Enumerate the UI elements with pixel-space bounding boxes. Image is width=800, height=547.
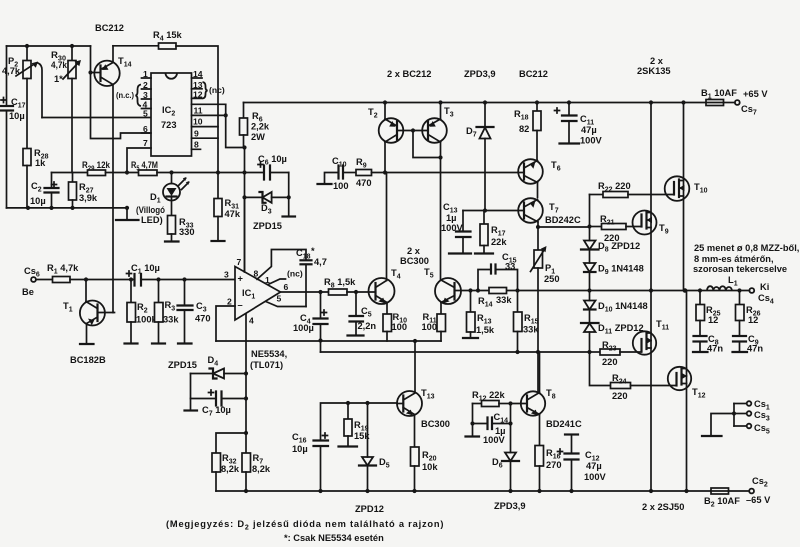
node rail C16 [318, 489, 322, 493]
node rail C12 [569, 489, 573, 493]
diode D3 ZPD15 [245, 192, 289, 231]
resistor R23 [590, 340, 642, 367]
wire R30 bottom [71, 79, 73, 173]
diode D9 1N4148 [584, 263, 644, 291]
svg-text:33k: 33k [523, 325, 539, 335]
resistor R10 [383, 303, 407, 342]
resistor R1 [47, 263, 79, 283]
node T8 base [508, 401, 512, 405]
svg-text:(n.c.): (n.c.) [116, 90, 134, 100]
terminal +65V Cs7 [735, 89, 768, 117]
svg-text:2 x: 2 x [650, 56, 664, 66]
transistor T2 [368, 103, 403, 173]
capacitor C16 [292, 432, 328, 491]
wire P2 wiper to IC2 pin5 [42, 117, 151, 119]
terminal Ki Cs4 [749, 282, 773, 306]
wire C6 right down to ground [288, 173, 290, 217]
inductor L1 [707, 275, 738, 291]
resistor R18 [514, 103, 541, 160]
svg-text:8,2k: 8,2k [252, 464, 271, 474]
svg-text:100V: 100V [483, 435, 506, 445]
node rail-P2 [25, 44, 29, 48]
op-amp-supply IC2 723 body [151, 73, 192, 156]
svg-text:47µ: 47µ [581, 125, 597, 135]
svg-text:BC300: BC300 [400, 256, 429, 266]
wire R29 to R5 [106, 172, 139, 174]
svg-text:7: 7 [237, 257, 242, 267]
IC2 right pin stubs [192, 69, 203, 150]
zener D8 ZPD12 [581, 241, 640, 264]
wire reference line y172 [52, 172, 88, 174]
mosfet T11 2SJ50 [633, 291, 669, 492]
terminal Cs5 [734, 423, 770, 436]
resistor R11 [422, 303, 446, 342]
node rail C11 [567, 100, 571, 104]
svg-text:+: + [238, 274, 244, 284]
resistor R24 [611, 373, 677, 401]
svg-text:4,7: 4,7 [314, 257, 327, 267]
zener D11 ZPD12 [581, 323, 644, 352]
diode D5 ZPD12 [359, 403, 390, 491]
ground left-bottom [126, 208, 128, 220]
svg-text:2,2k: 2,2k [251, 122, 270, 132]
svg-text:BC212: BC212 [519, 69, 548, 79]
svg-text:2,2n: 2,2n [358, 321, 377, 331]
mosfet T10 2SK135 [665, 103, 708, 291]
resistor R19 [339, 403, 371, 447]
svg-text:LED): LED) [141, 215, 163, 225]
svg-text:12: 12 [748, 315, 758, 325]
node D3 right [287, 195, 291, 199]
wire chain down to R24 [590, 352, 611, 386]
trimmer R30 [51, 46, 81, 84]
node base tie [411, 128, 415, 132]
resistor R21 [590, 214, 642, 243]
label nc right bracket [203, 82, 225, 99]
ground C7 [190, 399, 192, 411]
ground C14 [472, 424, 474, 437]
wire T7emitter to R21R22 [538, 226, 590, 228]
node C6 left [242, 170, 246, 174]
svg-text:6: 6 [284, 282, 289, 292]
resistor R27 [69, 173, 98, 208]
svg-text:3: 3 [143, 90, 148, 100]
resistor R3 [152, 280, 179, 344]
node R8-C5 [354, 290, 358, 294]
svg-text:(nc): (nc) [209, 85, 225, 95]
diode D10 1N4148 [584, 291, 648, 324]
svg-text:22k: 22k [491, 237, 507, 247]
node P1 line B [536, 350, 540, 354]
svg-text:BD241C: BD241C [546, 419, 582, 429]
node pin7-gnd [125, 170, 129, 174]
svg-text:ZPD3,9: ZPD3,9 [494, 501, 526, 511]
wire T8 base column to D6 [510, 404, 512, 453]
transistor T1 BC182B [63, 280, 115, 366]
node output T10T12 [683, 288, 688, 293]
wire IC2 pin10 [192, 126, 219, 128]
LED D1 [136, 173, 190, 226]
resistor R4 [153, 30, 183, 49]
wire left bottom common [7, 207, 128, 209]
svg-text:10k: 10k [422, 462, 438, 472]
node T1 collector [84, 277, 88, 281]
node rail R7 [244, 489, 248, 493]
terminal Cs3 [734, 410, 770, 423]
svg-text:4,7k: 4,7k [2, 66, 21, 76]
label coil note [693, 243, 799, 274]
resistor R2 [125, 280, 158, 344]
capacitor C17 [1, 46, 26, 208]
node rail R16 [537, 489, 541, 493]
resistor R17 [475, 211, 507, 254]
node C3 top [182, 277, 186, 281]
svg-text:270: 270 [546, 460, 562, 470]
svg-text:ZPD15: ZPD15 [253, 221, 282, 231]
node C7 right [244, 396, 248, 400]
resistor R31 [212, 173, 241, 242]
wire +65V rail [244, 102, 707, 104]
potentiometer P2 [2, 46, 42, 118]
svg-text:220: 220 [612, 391, 628, 401]
ground C6-D3 [283, 215, 296, 217]
transistor T13 [397, 388, 450, 447]
node rail T3 [438, 100, 442, 104]
node D5 top [365, 401, 369, 405]
wire T14 emitter rail to R4 [113, 45, 159, 47]
svg-text:BD242C: BD242C [545, 215, 581, 225]
transistor T5 [424, 267, 471, 304]
node C2R27 bottom [26, 206, 30, 210]
svg-text:14: 14 [193, 69, 203, 79]
svg-text:220: 220 [602, 357, 618, 367]
svg-text:100: 100 [333, 181, 349, 191]
svg-text:10µ: 10µ [30, 196, 46, 206]
wire IC1 pin4 down [245, 314, 247, 433]
svg-text:470: 470 [195, 314, 211, 324]
node T14 base [88, 70, 92, 74]
svg-text:47n: 47n [747, 344, 763, 354]
svg-text:330: 330 [179, 227, 195, 237]
node R2 top [129, 277, 133, 281]
svg-text:5: 5 [143, 109, 148, 119]
wire feedback line A [216, 340, 441, 342]
node D4 right [244, 371, 248, 375]
resistor R5 [131, 160, 158, 176]
resistor R22 [590, 181, 675, 198]
wire IC1 pin7 supply [244, 197, 246, 272]
IC2 left pin stubs [142, 69, 152, 148]
transistor T4 [369, 173, 401, 305]
node output C4 [318, 290, 322, 294]
capacitor C1 [127, 263, 160, 286]
wire T13 collector up [414, 341, 416, 393]
svg-text:10µ: 10µ [292, 444, 308, 454]
wire R32 branch [216, 433, 246, 453]
wire R22 down to R21 [589, 195, 591, 241]
node rail T12 [684, 489, 688, 493]
svg-text:3: 3 [224, 270, 229, 280]
resistor R7 [242, 433, 271, 491]
potentiometer P1 [531, 227, 560, 393]
node rail D5 [365, 489, 369, 493]
svg-text:(TL071): (TL071) [250, 360, 283, 370]
terminal -65V Cs2 [746, 476, 771, 505]
wire T14 base jog to IC2 pin6 [91, 73, 152, 139]
capacitor C8 [693, 334, 723, 354]
ground speaker terminals [711, 414, 734, 437]
node Cs3 [732, 411, 736, 415]
svg-text:2 x: 2 x [407, 246, 421, 256]
resistor R20 [411, 447, 439, 491]
node pin11-12 [224, 113, 228, 117]
resistor R16 [535, 446, 562, 492]
node rail T10 [681, 100, 685, 104]
wire output line T5 base to Ki [471, 290, 750, 292]
wire T2-T3 base tie [397, 130, 428, 132]
svg-text:10µ: 10µ [9, 111, 25, 121]
capacitor C10 [332, 156, 356, 191]
svg-text:2: 2 [143, 80, 148, 90]
svg-text:11: 11 [194, 106, 203, 116]
transistor T14 BC212 [91, 23, 132, 313]
wire bootstrap line B [321, 351, 590, 353]
node R21 left [587, 224, 591, 228]
svg-text:2 x 2SJ50: 2 x 2SJ50 [642, 502, 684, 512]
wire Cs tie [733, 404, 735, 427]
node R3 top [156, 277, 160, 281]
node T3 collector [438, 155, 442, 159]
wire IC2 pin11 [192, 114, 226, 116]
svg-text:47µ: 47µ [586, 461, 602, 471]
node rail D6 [508, 489, 512, 493]
wire R6 node down to C6 D3 IC1pin7 [244, 148, 246, 273]
resistor R28 [23, 79, 49, 208]
capacitor C9 [733, 334, 764, 354]
wire T3 collector to bases [413, 131, 441, 158]
fuse B1 [701, 88, 737, 106]
node output T9T11 [649, 288, 653, 292]
op-amp IC1 [224, 257, 303, 326]
svg-text:100µ: 100µ [293, 323, 314, 333]
svg-text:10: 10 [193, 117, 203, 127]
svg-text:2 x BC212: 2 x BC212 [387, 69, 431, 79]
capacitor C15 [478, 252, 518, 291]
svg-text:1,5k: 1,5k [476, 325, 495, 335]
svg-text:ZPD15: ZPD15 [168, 360, 197, 370]
svg-text:8,2k: 8,2k [221, 464, 240, 474]
svg-text:Ki: Ki [760, 282, 769, 292]
node rail R20 [412, 489, 416, 493]
transistor T7 BD242C [485, 198, 581, 227]
svg-text:9: 9 [194, 129, 199, 139]
node R15 line B [515, 350, 519, 354]
capacitor C14 [473, 404, 511, 446]
svg-text:BC212: BC212 [95, 23, 124, 33]
node T7 emitter [536, 225, 540, 229]
capacitor C12 [558, 435, 607, 492]
node output R26 [737, 288, 741, 292]
resistor R12 [472, 390, 511, 407]
wire IC2 pin7 [127, 148, 151, 173]
node C15 right R15 [515, 288, 519, 292]
svg-text:4: 4 [249, 316, 254, 326]
svg-text:3,9k: 3,9k [79, 193, 98, 203]
capacitor C7 [191, 374, 247, 418]
transistor T3 [422, 103, 453, 280]
node C14 right [508, 421, 512, 425]
capacitor C11 [555, 103, 603, 146]
svg-text:(Villogó: (Villogó [136, 205, 165, 215]
svg-text:2W: 2W [251, 132, 265, 142]
svg-text:82: 82 [519, 124, 529, 134]
wire T8 collector to line B [539, 352, 541, 393]
resistor R8 [324, 277, 356, 295]
svg-text:(nc): (nc) [287, 269, 303, 279]
resistor R13 [463, 291, 495, 339]
wire C1 to IC1 pin3 [141, 279, 235, 281]
svg-text:100V: 100V [580, 136, 603, 146]
wire pin11-12 down to R6 bottom [226, 104, 245, 147]
resistor R15 [514, 291, 540, 353]
svg-text:1*: 1* [54, 74, 63, 84]
wire IC2 pin6 stub [142, 132, 152, 134]
mosfet T12 2SJ50 [668, 291, 706, 492]
capacitor C13 [441, 202, 485, 254]
capacitor C3 [178, 280, 211, 344]
wire input line to C1 [70, 279, 135, 281]
resistor R6 [240, 103, 270, 148]
svg-text:*: Csak NE5534 esetén: *: Csak NE5534 esetén [284, 533, 384, 543]
wire top-left rail [7, 45, 91, 47]
node R13 top [468, 288, 472, 292]
mosfet T9 2SK135 [633, 103, 669, 291]
node R19 top [346, 401, 350, 405]
node D1 top [169, 170, 173, 174]
resistor R25 [696, 291, 721, 336]
svg-text:1µ: 1µ [446, 213, 457, 223]
wire IC1 output [281, 291, 329, 293]
node chain line B [587, 350, 591, 354]
capacitor C18 [296, 246, 327, 307]
svg-text:47k: 47k [225, 209, 241, 219]
node rail T2 [383, 100, 387, 104]
resistor R9 [356, 157, 524, 188]
resistor R14 [478, 288, 512, 309]
svg-text:33k: 33k [496, 295, 512, 305]
wire IC2 pin9 [192, 137, 219, 139]
wire IC1 pin1 nc stub [268, 279, 286, 285]
svg-text:8 mm-es átmérőn,: 8 mm-es átmérőn, [694, 254, 774, 264]
svg-text:5: 5 [277, 294, 282, 304]
svg-text:BC300: BC300 [421, 419, 450, 429]
diode D4 ZPD15 [168, 355, 246, 379]
svg-text:100: 100 [392, 322, 408, 332]
svg-text:470: 470 [356, 178, 372, 188]
svg-text:+65 V: +65 V [743, 89, 768, 99]
wire input [36, 279, 53, 281]
node rail-R30 [70, 44, 74, 48]
node R6 bottom [242, 145, 246, 149]
node R9-T2 [383, 170, 387, 174]
svg-text:33k: 33k [163, 315, 179, 325]
svg-text:13: 13 [193, 80, 203, 90]
wire rail corner down to T14 base [90, 46, 92, 73]
node rail T11 [649, 489, 653, 493]
svg-text:1k: 1k [35, 158, 46, 168]
node R7 top [244, 431, 248, 435]
resistor R29 [82, 160, 111, 176]
svg-text:4,7k: 4,7k [51, 60, 68, 70]
svg-text:ZPD12: ZPD12 [355, 504, 384, 514]
svg-text:33: 33 [505, 262, 515, 272]
svg-text:–: – [238, 300, 243, 310]
svg-text:ZPD3,9: ZPD3,9 [464, 69, 496, 79]
svg-text:12: 12 [193, 90, 203, 100]
svg-text:BC182B: BC182B [70, 355, 106, 365]
transistor T8 BD241C [511, 388, 582, 446]
node line A center [413, 339, 417, 343]
wire IC1 pin5 comp [266, 302, 306, 307]
svg-text:100V: 100V [441, 223, 464, 233]
svg-text:100V: 100V [584, 472, 607, 482]
wire IC1 pin2 feedback [216, 306, 235, 341]
capacitor C4 [293, 292, 328, 352]
node diode chain output [587, 288, 591, 292]
svg-text:12: 12 [708, 315, 718, 325]
diode D6 ZPD3,9 [492, 453, 519, 492]
svg-text:723: 723 [161, 120, 177, 130]
ground C10 [325, 173, 339, 185]
zener D7 [466, 103, 494, 211]
svg-text:8: 8 [254, 269, 259, 279]
resistor R32 [212, 453, 240, 491]
resistor R33 [165, 216, 195, 242]
svg-text:szorosan tekercselve: szorosan tekercselve [693, 264, 787, 274]
svg-text:47n: 47n [707, 344, 723, 354]
resistor R26 [736, 291, 761, 336]
node output R25 [698, 288, 702, 292]
svg-text:2: 2 [227, 297, 232, 307]
wire R8 to T4 base [347, 291, 376, 293]
svg-text:Be: Be [22, 287, 34, 297]
terminal Cs1 [734, 399, 770, 412]
capacitor C6 [245, 154, 289, 180]
node C14 left [470, 421, 474, 425]
node D3 left [242, 195, 246, 199]
node D7 C13 R17 T7base [483, 208, 487, 212]
wire T13 base line [321, 403, 398, 441]
node rail D7 [483, 100, 487, 104]
wire R4 to IC2 pins 10-9 column [176, 46, 218, 173]
wire IC1 pin8 comp [257, 250, 306, 280]
svg-text:8: 8 [194, 140, 199, 150]
fuse B2 [704, 488, 749, 509]
node rail R18 [535, 100, 539, 104]
node rail T9 [649, 100, 653, 104]
node R31 top [216, 170, 220, 174]
svg-text:25 menet ø 0,8 MZZ-ből,: 25 menet ø 0,8 MZZ-ből, [694, 243, 799, 253]
svg-text:–65 V: –65 V [746, 495, 771, 505]
wire R5 to D1 to R31 to C6 node [157, 172, 245, 174]
node C15 left [476, 288, 480, 292]
transistor T6 [518, 159, 560, 197]
svg-text:250: 250 [544, 274, 560, 284]
svg-text:1: 1 [143, 69, 148, 79]
label nc left bracket [116, 85, 141, 107]
svg-text:2SK135: 2SK135 [637, 66, 671, 76]
wire -65V rail [216, 490, 711, 492]
